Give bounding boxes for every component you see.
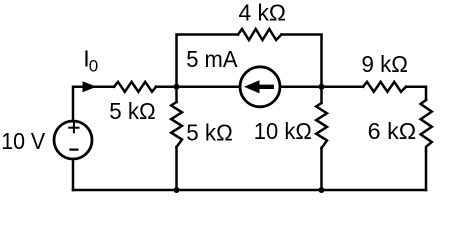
bottom-left junction dot [174,187,180,193]
resistor R 9k zigzag [363,82,406,92]
bottom rail wire [73,189,426,192]
wire node A down to R5k vertical [175,87,178,102]
current source circle [240,67,280,107]
resistor R 4k zigzag [238,29,282,40]
svg-text:5 mA: 5 mA [186,46,238,72]
wire top-left segment (node A to R4k) [177,35,239,87]
minus sign of source [70,149,77,151]
wire source top lead [73,87,114,120]
wire R6k to bottom rail [425,151,428,190]
voltage source VS circle [54,121,92,159]
wire top-right segment (R4k to node B) [282,35,322,87]
bottom-right junction dot [319,187,325,193]
svg-text:9 kΩ: 9 kΩ [362,51,409,77]
node A junction dot [174,84,180,90]
svg-text:4 kΩ: 4 kΩ [239,0,287,25]
svg-text:5 kΩ: 5 kΩ [186,119,233,145]
wire R5k vertical to bottom rail [175,147,178,190]
resistor 5k horizontal zigzag [114,82,156,92]
svg-text:10 V: 10 V [1,128,45,154]
wire R10k to bottom rail [320,148,323,190]
resistor 10k vertical zigzag [316,103,327,148]
plus sign of source [69,123,78,132]
wire node B down to R10k [320,87,323,103]
wire current source to node B [282,86,322,89]
node B junction dot [319,84,325,90]
wire source bottom lead [72,160,75,191]
svg-text:10 kΩ: 10 kΩ [254,118,312,144]
wire R9k to right corner [406,87,426,100]
wire node B to R9k [322,86,364,89]
wire R5k to current source [156,86,239,89]
current direction arrowhead I0 [83,81,97,92]
resistor 5k vertical zigzag [171,102,182,147]
current source arrow [244,80,274,93]
svg-text:6 kΩ: 6 kΩ [368,118,417,144]
svg-text:5 kΩ: 5 kΩ [109,98,156,124]
resistor 6k vertical zigzag [421,100,432,151]
